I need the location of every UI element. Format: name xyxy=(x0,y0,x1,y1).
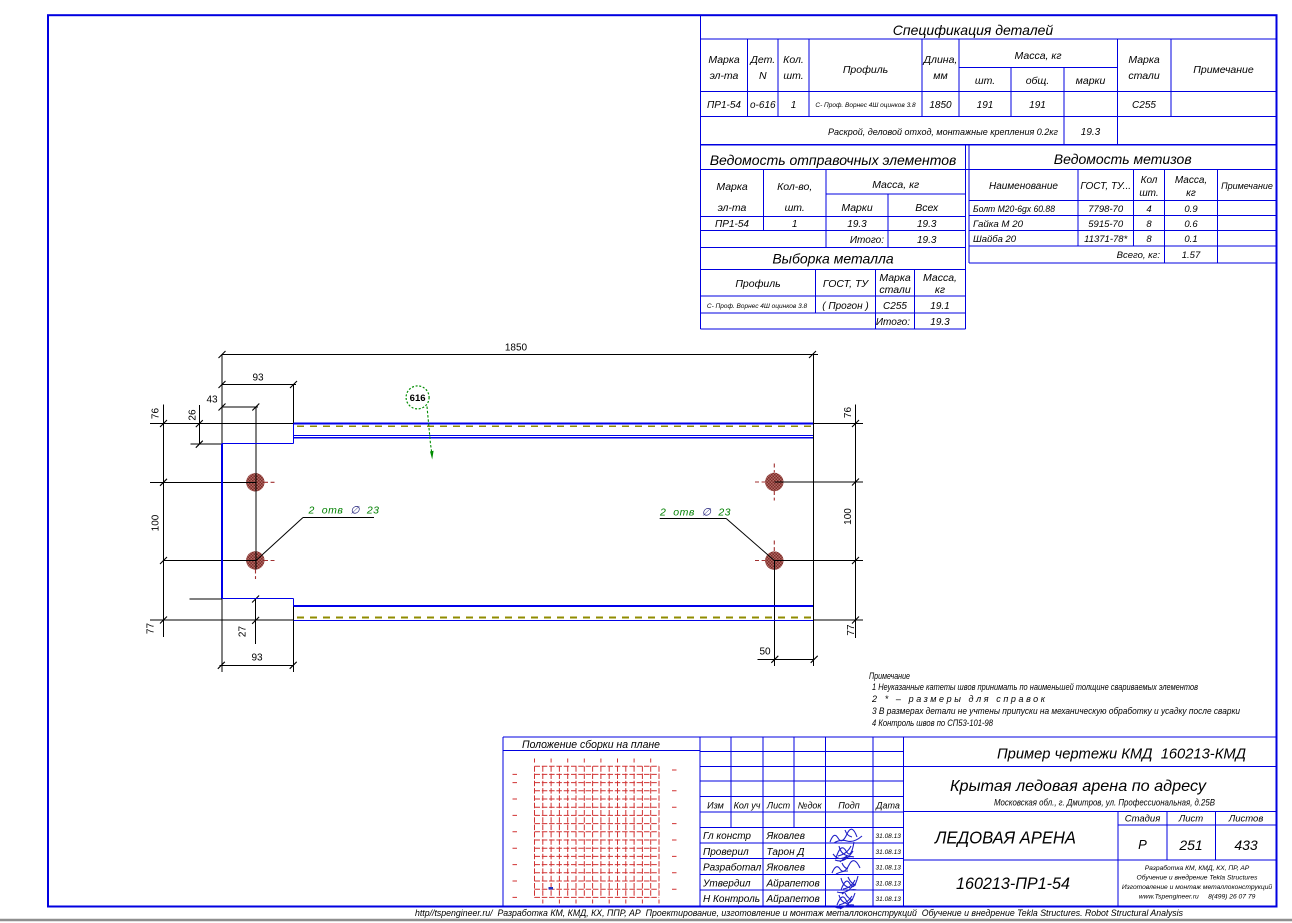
svg-text:76: 76 xyxy=(843,407,854,419)
svg-text:Шайба 20: Шайба 20 xyxy=(973,234,1017,245)
svg-text:Спецификация деталей: Спецификация деталей xyxy=(893,22,1054,38)
svg-text:Итого:: Итого: xyxy=(876,317,910,328)
svg-text:ПР1-54: ПР1-54 xyxy=(715,219,749,230)
svg-text:Кол: Кол xyxy=(1141,175,1158,186)
svg-text:N: N xyxy=(759,70,767,82)
svg-text:шт.: шт. xyxy=(785,202,805,214)
svg-text:43: 43 xyxy=(206,395,218,406)
svg-text:о-616: о-616 xyxy=(750,100,776,111)
svg-text:11371-78*: 11371-78* xyxy=(1084,234,1127,245)
svg-text:19.3: 19.3 xyxy=(930,317,950,328)
svg-text:Ведомость метизов: Ведомость метизов xyxy=(1054,151,1192,167)
svg-text:19.3: 19.3 xyxy=(917,219,937,230)
svg-text:ЛЕДОВАЯ АРЕНА: ЛЕДОВАЯ АРЕНА xyxy=(934,828,1076,848)
svg-text:стали: стали xyxy=(879,284,911,296)
svg-text:Положение сборки на плане: Положение сборки на плане xyxy=(522,739,660,751)
svg-text:433: 433 xyxy=(1234,837,1258,853)
svg-text:76: 76 xyxy=(151,408,162,420)
svg-text:19.3: 19.3 xyxy=(847,219,867,230)
svg-text:1850: 1850 xyxy=(929,100,952,111)
svg-text:31.08.13: 31.08.13 xyxy=(876,849,902,856)
svg-text:4: 4 xyxy=(1146,204,1151,215)
svg-text:Пример чертежи КМД 160213-КМД: Пример чертежи КМД 160213-КМД xyxy=(997,746,1246,763)
svg-text:Масса,: Масса, xyxy=(1175,175,1207,186)
svg-text:26: 26 xyxy=(188,409,199,421)
svg-text:Марка: Марка xyxy=(708,54,740,66)
svg-text:С255: С255 xyxy=(883,301,907,312)
svg-text:ПР1-54: ПР1-54 xyxy=(707,100,741,111)
svg-text:мм: мм xyxy=(933,70,947,82)
svg-text:19.3: 19.3 xyxy=(1081,127,1101,138)
svg-text:2 * – размеры для справок: 2 * – размеры для справок xyxy=(871,694,1046,704)
svg-text:31.08.13: 31.08.13 xyxy=(876,896,902,903)
svg-text:31.08.13: 31.08.13 xyxy=(876,833,902,840)
svg-text:Тарон Д: Тарон Д xyxy=(767,847,805,858)
svg-text:Профиль: Профиль xyxy=(735,278,780,290)
svg-text:Гайка М 20: Гайка М 20 xyxy=(973,219,1024,230)
svg-text:Кол-во,: Кол-во, xyxy=(777,181,812,193)
svg-text:5915-70: 5915-70 xyxy=(1088,219,1124,230)
svg-text:Наименование: Наименование xyxy=(989,181,1058,192)
svg-text:93: 93 xyxy=(251,653,263,664)
svg-text:кг: кг xyxy=(1186,188,1196,199)
svg-text:http//tspengineer.ru/ Разрабо: http//tspengineer.ru/ Разработка КМ, КМД… xyxy=(415,908,1183,918)
svg-text:1: 1 xyxy=(792,219,798,230)
svg-text:19.1: 19.1 xyxy=(930,301,949,312)
svg-text:ГОСТ, ТУ: ГОСТ, ТУ xyxy=(823,278,869,290)
svg-text:Кол.: Кол. xyxy=(783,54,804,66)
svg-text:Марка: Марка xyxy=(716,181,748,193)
svg-text:Разработка КМ, КМД, КХ, ПР, АР: Разработка КМ, КМД, КХ, ПР, АР xyxy=(1145,864,1250,872)
svg-text:77: 77 xyxy=(146,623,157,635)
svg-text:Яковлев: Яковлев xyxy=(766,831,805,842)
svg-text:191: 191 xyxy=(977,100,994,111)
svg-text:эл-та: эл-та xyxy=(718,202,747,214)
svg-text:Раскрой, деловой отход, монтаж: Раскрой, деловой отход, монтажные крепле… xyxy=(828,127,1059,137)
svg-text:кг: кг xyxy=(935,284,945,296)
svg-text:Гл констр: Гл констр xyxy=(703,831,751,842)
svg-text:Масса, кг: Масса, кг xyxy=(1014,50,1061,62)
svg-text:Всего, кг:: Всего, кг: xyxy=(1117,250,1161,261)
svg-text:Лист: Лист xyxy=(1178,814,1204,825)
svg-text:Стадия: Стадия xyxy=(1125,814,1161,825)
svg-text:Кол уч: Кол уч xyxy=(734,801,761,811)
svg-text:Дата: Дата xyxy=(875,801,900,811)
svg-text:616: 616 xyxy=(410,393,426,404)
svg-text:50: 50 xyxy=(759,647,771,658)
svg-text:шт.: шт. xyxy=(975,75,995,87)
svg-text:Изготовление и монтаж металлок: Изготовление и монтаж металлоконструкций xyxy=(1122,883,1273,891)
svg-text:Дет.: Дет. xyxy=(749,54,775,66)
svg-text:Крытая ледовая арена по адресу: Крытая ледовая арена по адресу xyxy=(950,778,1207,795)
svg-text:Листов: Листов xyxy=(1228,814,1264,825)
svg-text:Ведомость отправочных элементо: Ведомость отправочных элементов xyxy=(710,152,957,168)
svg-text:27: 27 xyxy=(238,626,249,638)
svg-text:общ.: общ. xyxy=(1026,75,1050,87)
svg-text:1: 1 xyxy=(791,100,797,111)
svg-text:4 Контроль швов по СП53-101-9: 4 Контроль швов по СП53-101-98 xyxy=(872,718,993,728)
svg-text:Марка: Марка xyxy=(879,272,911,284)
svg-text:31.08.13: 31.08.13 xyxy=(876,881,902,888)
svg-text:Профиль: Профиль xyxy=(843,64,888,76)
svg-text:Обучение и внедрение Tekla St: Обучение и внедрение Tekla Structures xyxy=(1137,874,1259,882)
svg-text:Длина,: Длина, xyxy=(923,54,958,66)
svg-text:191: 191 xyxy=(1029,100,1046,111)
svg-text:Изм: Изм xyxy=(707,801,724,811)
svg-text:Яковлев: Яковлев xyxy=(766,863,805,874)
svg-text:Масса,: Масса, xyxy=(923,272,957,284)
svg-text:Итого:: Итого: xyxy=(850,235,884,246)
svg-text:251: 251 xyxy=(1178,837,1202,853)
svg-text:( Прогон ): ( Прогон ) xyxy=(822,301,868,312)
svg-text:Масса, кг: Масса, кг xyxy=(872,179,919,191)
svg-text:Разработал: Разработал xyxy=(703,862,762,874)
svg-text:Проверил: Проверил xyxy=(703,847,749,858)
svg-text:Болт М20-6gх 60.88: Болт М20-6gх 60.88 xyxy=(973,204,1056,215)
svg-text:шт.: шт. xyxy=(1139,188,1158,199)
svg-text:стали: стали xyxy=(1128,70,1160,82)
svg-text:0.1: 0.1 xyxy=(1184,234,1197,245)
svg-text:С- Проф. Ворнес 4Ш оцинков 3.8: С- Проф. Ворнес 4Ш оцинков 3.8 xyxy=(815,102,916,109)
svg-text:С255: С255 xyxy=(1132,100,1156,111)
svg-text:2 отв ∅ 23: 2 отв ∅ 23 xyxy=(308,505,380,517)
svg-text:31.08.13: 31.08.13 xyxy=(876,865,902,872)
svg-text:Примечание: Примечание xyxy=(1193,64,1254,76)
svg-text:77: 77 xyxy=(846,624,857,636)
svg-text:1 Неуказанные катеты швов при: 1 Неуказанные катеты швов принимать по н… xyxy=(872,682,1198,692)
svg-text:8: 8 xyxy=(1146,219,1152,230)
svg-text:Выборка металла: Выборка металла xyxy=(772,251,894,267)
svg-text:Московская обл., г. Дмитров, у: Московская обл., г. Дмитров, ул. Професс… xyxy=(994,798,1216,809)
svg-text:3 В размерах детали не учтены: 3 В размерах детали не учтены припуски н… xyxy=(872,706,1240,716)
svg-text:2 отв ∅ 23: 2 отв ∅ 23 xyxy=(659,507,731,519)
svg-text:Всех: Всех xyxy=(915,202,939,214)
svg-text:100: 100 xyxy=(843,508,854,525)
svg-text:93: 93 xyxy=(252,373,264,384)
svg-text:Примечание: Примечание xyxy=(869,671,910,681)
svg-text:19.3: 19.3 xyxy=(917,235,937,246)
svg-text:1850: 1850 xyxy=(505,343,528,354)
svg-text:0.9: 0.9 xyxy=(1184,204,1198,215)
svg-text:Марки: Марки xyxy=(841,202,873,214)
svg-text:Утвердил: Утвердил xyxy=(702,879,751,890)
svg-text:Н Контроль: Н Контроль xyxy=(703,894,760,905)
svg-text:С- Проф. Ворнес 4Ш оцинков 3.8: С- Проф. Ворнес 4Ш оцинков 3.8 xyxy=(707,303,808,310)
svg-text:Марка: Марка xyxy=(1128,54,1160,66)
svg-text:Подп: Подп xyxy=(838,801,860,811)
svg-text:Лист: Лист xyxy=(766,801,791,811)
svg-text:8: 8 xyxy=(1146,234,1152,245)
svg-text:Айрапетов: Айрапетов xyxy=(766,894,820,905)
svg-text:эл-та: эл-та xyxy=(710,70,739,82)
svg-text:ГОСТ, ТУ...: ГОСТ, ТУ... xyxy=(1080,181,1131,192)
svg-text:шт.: шт. xyxy=(783,70,803,82)
svg-text:№док: №док xyxy=(798,801,823,811)
svg-text:1.57: 1.57 xyxy=(1182,250,1201,261)
svg-text:100: 100 xyxy=(151,514,162,531)
svg-text:7798-70: 7798-70 xyxy=(1088,204,1124,215)
svg-text:Р: Р xyxy=(1138,837,1147,852)
svg-text:0.6: 0.6 xyxy=(1184,219,1198,230)
svg-text:160213-ПР1-54: 160213-ПР1-54 xyxy=(956,874,1070,893)
svg-text:Айрапетов: Айрапетов xyxy=(766,879,820,890)
svg-text:Примечание: Примечание xyxy=(1221,181,1273,191)
svg-text:марки: марки xyxy=(1076,75,1106,87)
svg-text:www.Tspengineer.ru 8(499): www.Tspengineer.ru 8(499) 26 07 79 xyxy=(1139,894,1256,901)
